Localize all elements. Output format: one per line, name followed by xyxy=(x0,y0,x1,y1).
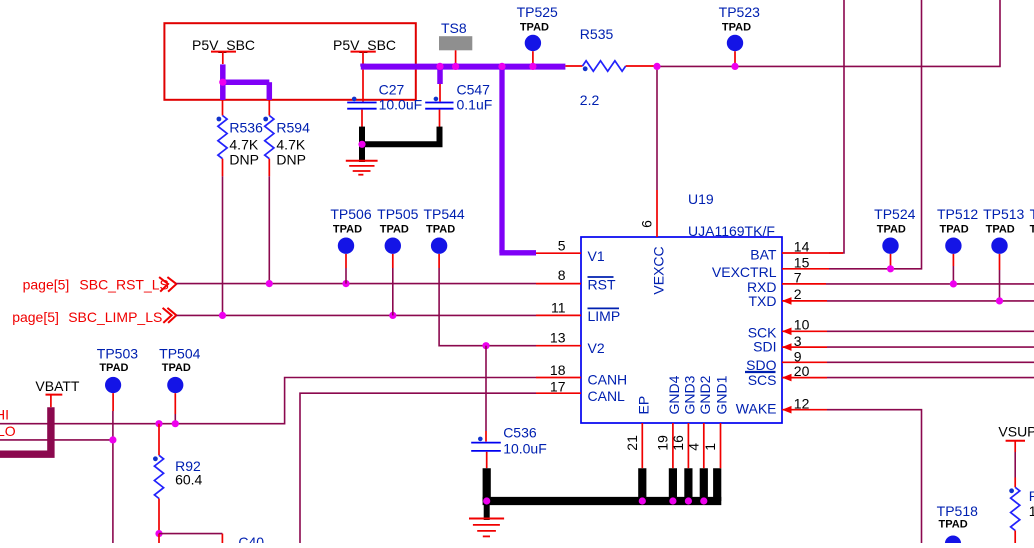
svg-text:page[5]: page[5] xyxy=(12,309,59,325)
wire (R594 down to SBC_RST_LS net) xyxy=(268,176,270,283)
svg-text:12: 12 xyxy=(794,395,810,411)
wire (CAN LO net from left edge to TP503) xyxy=(0,439,113,441)
svg-text:TP506: TP506 xyxy=(330,206,371,222)
wire (vertical from top edge down to VEXCTRL pin 15) xyxy=(829,0,922,269)
U19 pin names left xyxy=(588,248,628,404)
selection box (red rectangle around P5V_SBC symbols) xyxy=(164,23,415,100)
wire (VEXCC feed down to pin 6) xyxy=(656,66,658,190)
node junctions R92/TP504 on HI net xyxy=(155,420,162,427)
svg-text:TPAD: TPAD xyxy=(877,223,906,235)
wire (R92 bottom over to C40) xyxy=(159,534,222,543)
pin 5 stub V1 xyxy=(536,238,581,254)
wire (CANL net from bottom edge to CANL pin 17) xyxy=(300,393,536,543)
svg-text:GND4: GND4 xyxy=(666,375,682,414)
node junction at C27 ground xyxy=(358,141,365,148)
pin 4 stub GND2 xyxy=(685,423,704,468)
pin 14 stub BAT xyxy=(782,239,843,255)
test pad TP505 xyxy=(377,206,418,315)
test pad TP504 xyxy=(159,346,200,424)
svg-text:10: 10 xyxy=(794,317,810,333)
svg-text:TP523: TP523 xyxy=(719,4,760,20)
test pad TP544 xyxy=(423,206,464,268)
wire (SDO net pin 9 to right edge) xyxy=(827,361,1034,363)
capacitor C536 xyxy=(471,424,547,468)
svg-text:R594: R594 xyxy=(276,119,310,135)
pin 8 stub RST xyxy=(536,267,581,284)
svg-text:6: 6 xyxy=(639,220,655,228)
svg-text:TPAD: TPAD xyxy=(986,223,1015,235)
svg-text:TPAD: TPAD xyxy=(380,223,409,235)
svg-text:VSUP: VSUP xyxy=(998,423,1034,439)
svg-text:VEXCTRL: VEXCTRL xyxy=(712,264,777,280)
svg-text:TPAD: TPAD xyxy=(939,519,968,531)
wire (CAN HI net from left edge to CANH pin 18) xyxy=(0,378,536,424)
svg-text:2.2: 2.2 xyxy=(580,92,600,108)
pin 15 stub VEXCTRL xyxy=(782,254,829,270)
capacitor C27 xyxy=(347,70,422,127)
wire (purple net from left P5V_SBC down and over to R594) xyxy=(220,64,269,100)
wire (SCK net pin 10 to right edge) xyxy=(827,330,1034,332)
wire (RXD net pin 7 to right edge) xyxy=(826,283,1034,285)
svg-text:TPAD: TPAD xyxy=(940,223,969,235)
pin 21 stub EP xyxy=(624,423,643,468)
U19 bottom pin names EP GND4 GND3 GND2 GND1 (vertical) xyxy=(635,375,729,414)
svg-text:VBATT: VBATT xyxy=(35,378,80,394)
pin 16 stub GND3 xyxy=(670,423,689,468)
IC U19 UJA1169TK/F body xyxy=(581,191,782,423)
resistor R535 2.2 xyxy=(565,26,657,108)
svg-text:19: 19 xyxy=(654,435,670,451)
svg-text:TP544: TP544 xyxy=(423,206,464,222)
pin 3 stub SDI with arrow xyxy=(782,333,827,351)
svg-text:UJA1169TK/F: UJA1169TK/F xyxy=(688,223,775,239)
svg-text:TP525: TP525 xyxy=(517,4,558,20)
svg-text:TP524: TP524 xyxy=(874,206,915,222)
node junctions on RST/LIMP nets xyxy=(266,280,273,287)
test pad TP506 xyxy=(330,206,371,284)
svg-text:TPAD: TPAD xyxy=(520,21,549,33)
svg-text:SBC_LIMP_LS: SBC_LIMP_LS xyxy=(68,309,162,325)
svg-text:DNP: DNP xyxy=(276,151,306,167)
power symbol VSUP xyxy=(998,423,1034,452)
test pad TP525 xyxy=(517,4,558,63)
svg-text:TP518: TP518 xyxy=(937,503,978,519)
pin 6 stub VEXCC xyxy=(639,190,658,237)
svg-text:VEXCC: VEXCC xyxy=(651,246,667,294)
svg-text:10.0uF: 10.0uF xyxy=(379,97,423,113)
net stub page[5] SBC_LIMP_LS xyxy=(12,308,176,325)
wire (thick purple 5V bus) xyxy=(361,64,566,253)
node junction TP524/VEXCTRL xyxy=(887,265,894,272)
test pad TP503 xyxy=(97,346,138,543)
wire (SDI net pin 3 to right edge) xyxy=(827,346,1034,348)
test pad (truncated at right edge) xyxy=(1030,206,1034,235)
pin 18 stub CANH xyxy=(536,362,581,378)
svg-text:BAT: BAT xyxy=(750,247,777,263)
wire (VBAT net: R535 to top right corner) xyxy=(657,0,1000,66)
svg-text:TPAD: TPAD xyxy=(162,362,191,374)
wire (V2 net down to C536) xyxy=(485,346,487,431)
pin 7 stub RXD xyxy=(782,270,826,286)
wire (SCS net pin 20 to right edge) xyxy=(827,377,1034,379)
svg-text:0.1uF: 0.1uF xyxy=(457,97,493,113)
svg-text:10.0uF: 10.0uF xyxy=(503,441,547,457)
pin 20 stub SCS with arrow xyxy=(782,363,827,381)
svg-text:SDI: SDI xyxy=(753,338,776,354)
svg-text:R5: R5 xyxy=(1029,488,1034,504)
test pad TP513 xyxy=(983,206,1024,301)
node junctions on VBAT top net xyxy=(653,63,660,70)
svg-text:TP: TP xyxy=(1030,206,1034,222)
svg-text:11: 11 xyxy=(551,300,566,316)
wire (R536 down to SBC_LIMP_LS net) xyxy=(222,176,224,315)
svg-text:8: 8 xyxy=(558,267,566,283)
wire (thick black ground bus under U19) xyxy=(483,468,722,520)
node junction R92 bottom xyxy=(155,530,162,537)
svg-text:R535: R535 xyxy=(580,26,614,42)
ground (under C536) xyxy=(469,519,504,537)
wire (VSUP down to resistor) xyxy=(1014,452,1016,478)
svg-text:TPAD: TPAD xyxy=(722,21,751,33)
svg-text:17: 17 xyxy=(550,378,566,394)
svg-text:DNP: DNP xyxy=(229,151,259,167)
svg-text:U19: U19 xyxy=(688,191,714,207)
svg-text:21: 21 xyxy=(624,435,640,451)
wire (WAKE net pin 12 down to bottom edge) xyxy=(827,410,922,543)
svg-text:15: 15 xyxy=(794,254,810,270)
svg-text:TPAD: TPAD xyxy=(333,223,362,235)
svg-text:C27: C27 xyxy=(379,82,405,98)
resistor R (right edge, partially clipped) xyxy=(1009,478,1034,544)
pin 2 stub TXD with arrow xyxy=(782,286,827,305)
U19 pin names right xyxy=(712,247,777,417)
svg-text:V2: V2 xyxy=(588,340,605,356)
svg-text:4.7K: 4.7K xyxy=(276,137,305,153)
test pad TP512 xyxy=(937,206,978,284)
net stub page[5] SBC_RST_LS xyxy=(23,277,177,293)
node junction TP512/RXD xyxy=(950,280,957,287)
thermal pad TS8 xyxy=(439,20,472,64)
test pad TP518 xyxy=(937,503,978,548)
svg-text:LO: LO xyxy=(0,423,16,439)
svg-text:page[5]: page[5] xyxy=(23,277,70,293)
svg-text:RST: RST xyxy=(588,276,616,292)
resistor R92 60.4 xyxy=(153,424,203,534)
capacitor C547 xyxy=(425,82,492,127)
wire (R92 bottom to bottom edge) xyxy=(158,534,160,543)
svg-text:TP505: TP505 xyxy=(377,206,418,222)
node junction on purple net xyxy=(219,79,226,86)
svg-text:13: 13 xyxy=(550,329,566,345)
svg-text:SCS: SCS xyxy=(748,372,777,388)
pin 13 stub V2 xyxy=(536,329,581,345)
svg-text:16: 16 xyxy=(670,435,686,451)
wire (thick VBATT bus from left edge) xyxy=(0,407,51,454)
svg-text:4: 4 xyxy=(685,443,701,451)
test pad TP523 xyxy=(719,4,760,66)
pin 1 stub GND1 xyxy=(702,423,721,468)
svg-text:4.7K: 4.7K xyxy=(229,137,258,153)
svg-text:9: 9 xyxy=(794,348,802,364)
svg-text:GND2: GND2 xyxy=(697,375,713,414)
wire (TXD net pin 2 to right edge) xyxy=(827,300,1034,302)
svg-text:TPAD: TPAD xyxy=(99,362,128,374)
node junction TP503/LO xyxy=(109,436,116,443)
node junctions on ground bus xyxy=(483,497,490,504)
svg-text:CANH: CANH xyxy=(588,372,628,388)
ground (under C27) xyxy=(346,161,378,175)
svg-text:14: 14 xyxy=(794,239,810,255)
node junction TP513/TXD xyxy=(996,297,1003,304)
svg-text:EP: EP xyxy=(635,396,651,415)
pin 9 stub SDO xyxy=(782,348,827,364)
svg-text:1: 1 xyxy=(1029,503,1034,519)
power symbol VBATT xyxy=(35,378,80,407)
svg-text:3: 3 xyxy=(794,333,802,349)
wire (SBC_RST_LS net to RST pin) xyxy=(176,283,536,285)
svg-text:2: 2 xyxy=(794,286,802,302)
svg-text:C40: C40 xyxy=(238,534,264,543)
svg-text:SBC_RST_LS: SBC_RST_LS xyxy=(79,277,168,293)
svg-text:TPAD: TPAD xyxy=(426,223,455,235)
svg-text:1: 1 xyxy=(702,443,718,451)
resistor R594 4.7K DNP xyxy=(263,100,310,176)
svg-text:R536: R536 xyxy=(229,119,263,135)
svg-text:HI: HI xyxy=(0,407,9,423)
svg-text:TXD: TXD xyxy=(749,293,777,309)
svg-text:18: 18 xyxy=(550,362,566,378)
svg-text:C536: C536 xyxy=(503,424,537,440)
pin 17 stub CANL xyxy=(536,378,581,394)
wire (SBC_LIMP_LS net to LIMP pin) xyxy=(176,314,536,316)
svg-text:GND1: GND1 xyxy=(714,375,730,414)
pin 10 stub SCK with arrow xyxy=(782,317,827,336)
svg-text:V1: V1 xyxy=(588,248,605,264)
wire (vertical from top edge down to BAT pin 14) xyxy=(829,0,844,253)
svg-text:20: 20 xyxy=(794,363,810,379)
svg-text:WAKE: WAKE xyxy=(736,401,777,417)
svg-text:GND3: GND3 xyxy=(681,375,697,414)
node junction V2 net / C536 tap xyxy=(482,342,489,349)
svg-text:5: 5 xyxy=(558,238,566,254)
svg-text:TPAD: TPAD xyxy=(1030,223,1034,235)
svg-text:SDO: SDO xyxy=(746,357,776,373)
power symbol P5V_SBC (right) xyxy=(333,37,396,64)
wire (TP544 down and over to V2 pin 13) xyxy=(439,268,536,346)
svg-text:TP513: TP513 xyxy=(983,206,1024,222)
svg-text:TS8: TS8 xyxy=(441,20,467,36)
pin 11 stub LIMP xyxy=(536,300,581,316)
pin 19 stub GND4 xyxy=(654,423,673,468)
svg-text:TP512: TP512 xyxy=(937,206,978,222)
resistor R536 4.7K DNP xyxy=(217,100,264,176)
node junctions on 5V bus xyxy=(436,63,443,70)
test pad TP524 xyxy=(874,206,915,269)
svg-text:TP504: TP504 xyxy=(159,346,200,362)
wire (thick black ground link C27/C547) xyxy=(362,127,443,162)
svg-text:60.4: 60.4 xyxy=(175,471,202,487)
power symbol P5V_SBC (left) xyxy=(192,37,255,64)
svg-text:7: 7 xyxy=(794,270,802,286)
svg-text:C547: C547 xyxy=(457,82,491,98)
svg-text:TP503: TP503 xyxy=(97,346,138,362)
svg-text:LIMP: LIMP xyxy=(588,308,621,324)
svg-text:CANL: CANL xyxy=(588,388,626,404)
pin 12 stub WAKE with arrow xyxy=(782,395,827,413)
